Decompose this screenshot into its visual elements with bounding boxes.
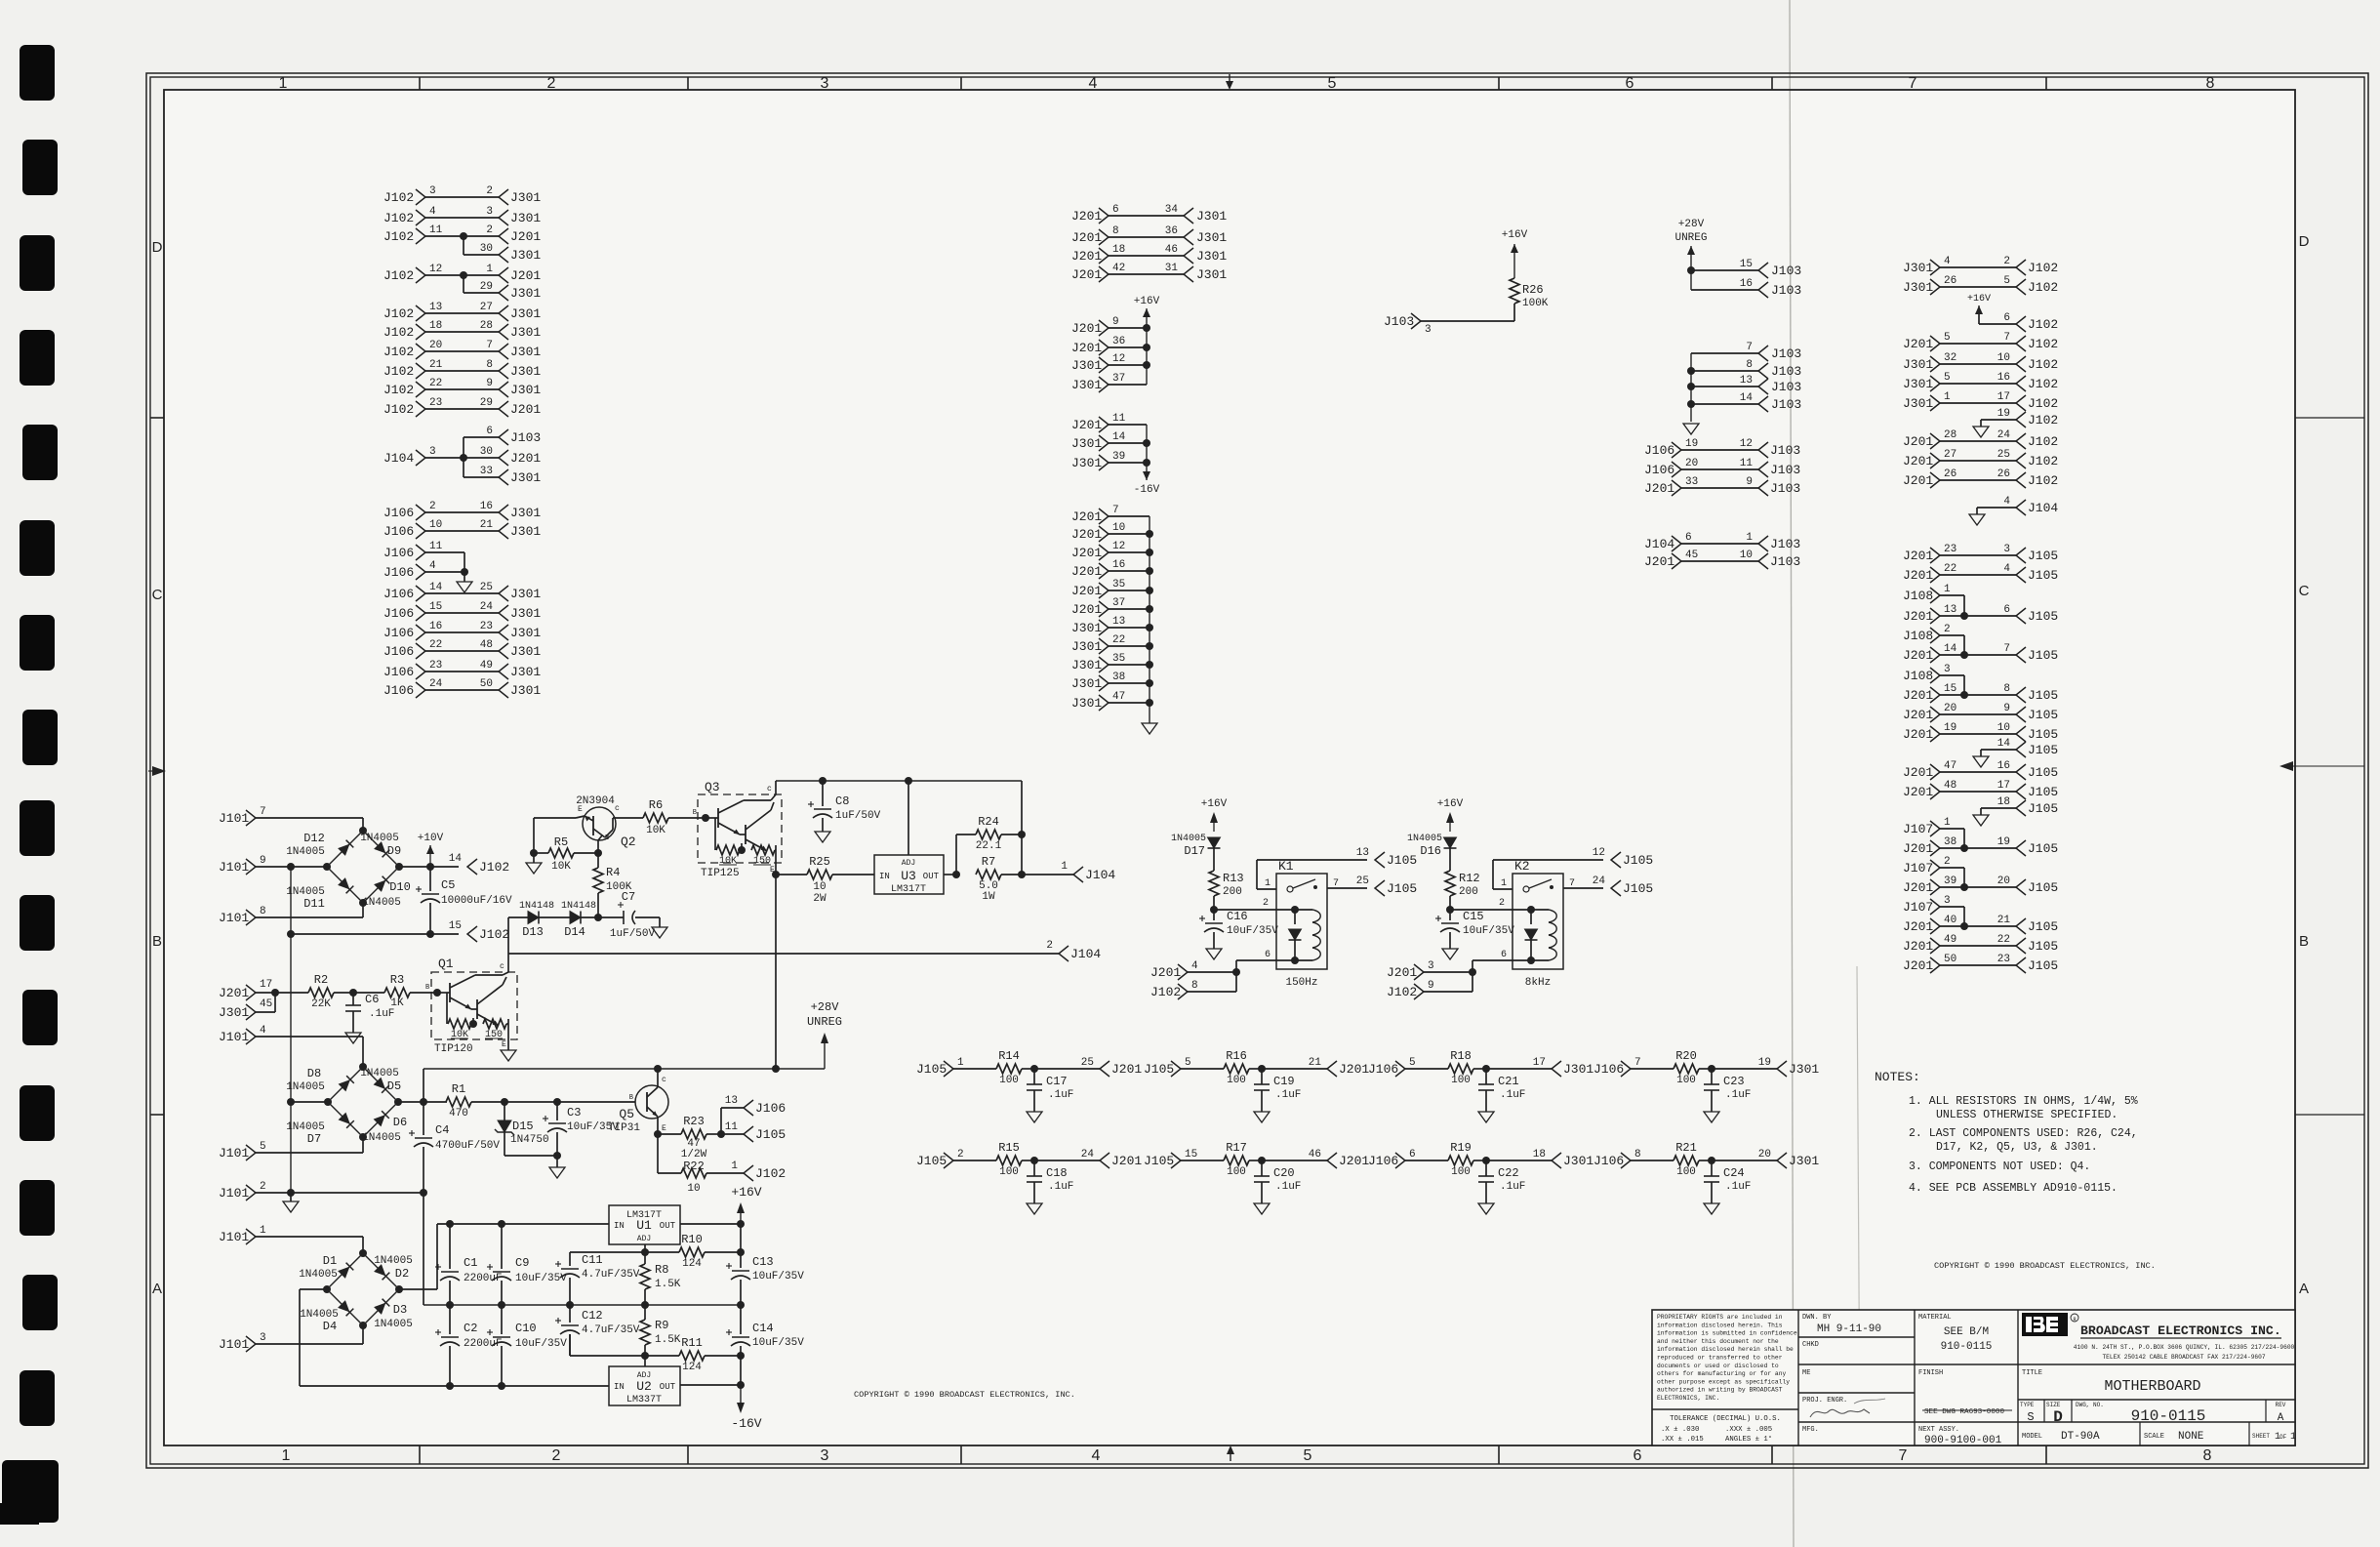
svg-text:c: c	[615, 804, 620, 813]
wire to J201.24	[1034, 1160, 1100, 1161]
wire Q2 base	[594, 849, 602, 857]
svg-text:1: 1	[260, 1225, 266, 1237]
resistor R26	[1510, 278, 1519, 304]
svg-text:18: 18	[429, 320, 442, 332]
svg-text:J301: J301	[510, 345, 541, 359]
svg-text:C13: C13	[752, 1255, 774, 1269]
svg-text:J106: J106	[383, 565, 414, 580]
resistor R18	[1405, 1068, 1448, 1070]
ground C24	[1704, 1203, 1719, 1214]
svg-text:TYPE: TYPE	[2020, 1402, 2035, 1408]
svg-text:R9: R9	[655, 1319, 668, 1332]
svg-text:B: B	[693, 809, 697, 817]
svg-text:5: 5	[1409, 1057, 1416, 1069]
svg-text:25: 25	[480, 582, 493, 593]
resistor R21	[1631, 1160, 1674, 1161]
svg-text:1uF/50V: 1uF/50V	[610, 928, 656, 940]
svg-text:11: 11	[429, 541, 443, 552]
svg-text:information disclosed herein.: information disclosed herein. This	[1657, 1322, 1783, 1328]
svg-text:+10V: +10V	[418, 833, 444, 844]
resistor R15	[953, 1160, 996, 1161]
svg-text:10uF/35V: 10uF/35V	[1227, 925, 1278, 937]
svg-text:J301: J301	[1071, 696, 1102, 711]
svg-text:J106: J106	[755, 1101, 786, 1116]
svg-text:J103: J103	[1771, 364, 1801, 379]
node J201.15 junction	[1960, 691, 1968, 699]
svg-text:4: 4	[2003, 563, 2010, 575]
wire J201.4 row	[1188, 971, 1236, 973]
svg-text:NONE: NONE	[2178, 1431, 2204, 1443]
svg-text:J201: J201	[1071, 249, 1102, 264]
ground C8	[815, 832, 830, 842]
svg-text:2. LAST COMPONENTS USED: R26: 2. LAST COMPONENTS USED: R26, C24,	[1909, 1127, 2138, 1140]
svg-text:J105: J105	[2028, 648, 2058, 663]
wire C15 node to relay pin2	[1450, 909, 1513, 911]
svg-text:29: 29	[480, 397, 493, 409]
svg-text:26: 26	[1997, 468, 2010, 480]
svg-text:J301: J301	[510, 325, 541, 340]
svg-text:40: 40	[1944, 915, 1956, 926]
svg-text:18: 18	[1997, 796, 2010, 808]
svg-text:R21: R21	[1675, 1141, 1697, 1155]
svg-text:6: 6	[486, 426, 493, 437]
svg-text:J301: J301	[510, 190, 541, 205]
svg-text:C24: C24	[1723, 1166, 1745, 1180]
svg-text:D11: D11	[303, 897, 325, 911]
svg-text:J201: J201	[1071, 209, 1102, 224]
capacitor C5	[429, 867, 431, 891]
svg-text:J201: J201	[1903, 785, 1933, 799]
wire U1 OUT	[680, 1223, 741, 1225]
svg-text:23: 23	[429, 660, 442, 672]
svg-text:PROPRIETARY RIGHTS are include: PROPRIETARY RIGHTS are included in	[1657, 1314, 1783, 1321]
svg-text:1. ALL RESISTORS IN OHMS, 1/: 1. ALL RESISTORS IN OHMS, 1/4W, 5%	[1909, 1095, 2138, 1108]
resistor R1	[446, 1097, 471, 1107]
svg-text:J103: J103	[1770, 443, 1800, 458]
svg-text:J105: J105	[2028, 801, 2058, 816]
svg-text:J301: J301	[510, 470, 541, 485]
svg-text:J106: J106	[383, 587, 414, 601]
wire U3 OUT	[944, 874, 956, 875]
svg-text:2: 2	[1944, 856, 1951, 868]
svg-text:J105: J105	[2028, 549, 2058, 563]
svg-text:5: 5	[1328, 75, 1337, 92]
svg-text:D1: D1	[323, 1254, 337, 1268]
svg-text:C: C	[152, 587, 163, 603]
svg-text:J104: J104	[2028, 501, 2058, 515]
svg-text:J201: J201	[1903, 609, 1933, 624]
svg-text:24: 24	[1997, 429, 2011, 441]
top center fold arrow	[1229, 74, 1230, 87]
svg-text:8: 8	[1191, 980, 1198, 992]
svg-text:J101: J101	[219, 1186, 249, 1201]
svg-text:1N4750: 1N4750	[510, 1134, 549, 1146]
row R10	[570, 1251, 679, 1253]
svg-text:J301: J301	[1071, 658, 1102, 672]
capacitor C14	[740, 1305, 742, 1334]
svg-text:R2: R2	[314, 973, 328, 987]
node Q3 base	[702, 814, 709, 822]
capacitor C1	[446, 1220, 454, 1228]
svg-text:J106: J106	[383, 506, 414, 520]
svg-text:19: 19	[1758, 1057, 1771, 1069]
svg-text:1N4005: 1N4005	[374, 1255, 413, 1267]
wire J101.1 to bridge3 top	[256, 1236, 363, 1238]
svg-text:17: 17	[1997, 391, 2010, 403]
power -16V center bus	[1146, 425, 1148, 474]
capacitor C22	[1485, 1160, 1487, 1176]
svg-text:R25: R25	[809, 855, 830, 869]
svg-text:J201: J201	[1339, 1154, 1369, 1168]
svg-text:13: 13	[429, 302, 442, 313]
svg-text:8: 8	[1746, 359, 1753, 371]
wire J102.15 row	[287, 930, 295, 938]
svg-text:J105: J105	[2028, 727, 2058, 742]
svg-text:BROADCAST ELECTRONICS INC.: BROADCAST ELECTRONICS INC.	[2080, 1323, 2281, 1338]
wire to J103.7	[1691, 352, 1758, 354]
svg-text:2W: 2W	[813, 893, 827, 905]
svg-text:2: 2	[1944, 624, 1951, 635]
svg-text:-16V: -16V	[731, 1416, 761, 1431]
resistor R10	[679, 1247, 705, 1257]
svg-text:B: B	[2299, 933, 2309, 950]
svg-text:D: D	[152, 239, 163, 256]
node J201.40 junction	[1960, 922, 1968, 930]
svg-text:100: 100	[1451, 1075, 1471, 1086]
svg-text:SCALE: SCALE	[2144, 1433, 2164, 1441]
zone row ticks right	[2295, 417, 2364, 419]
wire C7 to ground	[635, 916, 660, 918]
svg-text:J103: J103	[1771, 346, 1801, 361]
resistor R6	[643, 813, 668, 823]
svg-text:R18: R18	[1450, 1049, 1472, 1063]
svg-text:1N4005: 1N4005	[374, 1319, 413, 1330]
svg-text:J201: J201	[1071, 509, 1102, 524]
svg-text:20: 20	[1997, 875, 2010, 887]
zone row ticks left	[150, 417, 164, 419]
relay K2 box	[1513, 874, 1563, 969]
svg-text:J201: J201	[1071, 564, 1102, 579]
wire J101.3 to bridge3 bottom	[256, 1343, 363, 1345]
svg-text:1K: 1K	[390, 997, 404, 1009]
svg-text:J201: J201	[1339, 1062, 1369, 1077]
svg-text:100: 100	[1227, 1166, 1246, 1178]
svg-text:36: 36	[1112, 336, 1125, 347]
svg-text:MH 9-11-90: MH 9-11-90	[1817, 1323, 1881, 1335]
ground C21	[1478, 1112, 1494, 1122]
svg-text:Q3: Q3	[705, 780, 720, 794]
svg-text:3: 3	[1944, 664, 1951, 675]
ground symbol J105.18	[1980, 808, 1982, 815]
svg-text:21: 21	[429, 359, 443, 371]
svg-text:14: 14	[1944, 643, 1957, 655]
wire branch J301.33	[464, 476, 499, 478]
svg-text:6: 6	[1409, 1149, 1416, 1160]
svg-text:100: 100	[1227, 1075, 1246, 1086]
svg-text:16: 16	[480, 501, 493, 512]
svg-text:J201: J201	[1644, 554, 1674, 569]
capacitor C2	[449, 1305, 451, 1334]
svg-text:18: 18	[1112, 244, 1125, 256]
svg-text:6: 6	[1634, 1447, 1642, 1464]
svg-text:100: 100	[1676, 1075, 1696, 1086]
svg-text:13: 13	[725, 1095, 738, 1107]
svg-text:5: 5	[1304, 1447, 1312, 1464]
svg-text:J108: J108	[1903, 589, 1933, 603]
svg-text:7: 7	[486, 340, 493, 351]
svg-text:200: 200	[1223, 886, 1242, 898]
svg-text:J102: J102	[2028, 357, 2058, 372]
node C15	[1446, 906, 1454, 914]
svg-text:23: 23	[429, 397, 442, 409]
capacitor C3	[553, 1098, 561, 1106]
svg-text:39: 39	[1112, 451, 1125, 463]
svg-text:9: 9	[486, 378, 493, 389]
svg-text:1: 1	[1944, 391, 1951, 403]
svg-text:47: 47	[1944, 760, 1956, 772]
svg-text:D2: D2	[395, 1267, 409, 1281]
svg-text:1: 1	[1501, 878, 1507, 889]
svg-text:J106: J106	[1644, 443, 1674, 458]
svg-text:R3: R3	[390, 973, 404, 987]
svg-text:J105: J105	[2028, 609, 2058, 624]
svg-text:OUT: OUT	[660, 1382, 676, 1392]
capacitor C13	[740, 1224, 742, 1252]
ground left bus	[290, 1193, 292, 1201]
svg-text:48: 48	[480, 639, 493, 651]
svg-text:J105: J105	[2028, 919, 2058, 934]
svg-text:C16: C16	[1227, 910, 1248, 923]
svg-text:12: 12	[1593, 847, 1605, 859]
wire J201.3 row	[1424, 971, 1472, 973]
svg-text:J102: J102	[383, 345, 414, 359]
svg-text:100K: 100K	[1522, 298, 1549, 309]
svg-text:49: 49	[480, 660, 493, 672]
svg-text:7: 7	[1909, 75, 1917, 92]
svg-text:J103: J103	[1771, 380, 1801, 394]
wire Q5 collector	[657, 1069, 659, 1087]
svg-text:J201: J201	[1903, 337, 1933, 351]
svg-text:LM317T: LM317T	[891, 884, 926, 895]
svg-text:D17, K2, Q5, U3, & J301.: D17, K2, Q5, U3, & J301.	[1936, 1141, 2098, 1154]
svg-text:31: 31	[1165, 263, 1179, 274]
svg-text:information disclosed herein s: information disclosed herein shall be	[1657, 1346, 1794, 1353]
capacitor C15	[1449, 910, 1451, 920]
svg-text:1: 1	[1061, 861, 1068, 873]
svg-text:J201: J201	[510, 229, 541, 244]
svg-text:22: 22	[1944, 563, 1956, 575]
svg-text:SIZE: SIZE	[2046, 1402, 2061, 1408]
svg-text:R23: R23	[683, 1115, 705, 1128]
wire branch J301.29	[463, 275, 464, 293]
svg-text:J301: J301	[510, 306, 541, 321]
svg-text:9: 9	[260, 855, 266, 867]
svg-text:J102: J102	[383, 306, 414, 321]
svg-text:U3: U3	[901, 869, 916, 883]
svg-text:16: 16	[429, 621, 442, 632]
zone column ticks bottom	[419, 1445, 421, 1464]
svg-text:ELECTRONICS, INC.: ELECTRONICS, INC.	[1657, 1395, 1719, 1402]
svg-text:D15: D15	[512, 1120, 534, 1133]
svg-text:J201: J201	[1903, 765, 1933, 780]
ground symbol J104.4	[1976, 508, 1978, 514]
diode D17 1N4005	[1208, 837, 1221, 848]
ground to J105.14	[1981, 749, 2016, 751]
svg-text:J201: J201	[1071, 321, 1102, 336]
svg-text:1N4005: 1N4005	[286, 1081, 325, 1093]
svg-text:17: 17	[260, 979, 272, 991]
svg-text:J105: J105	[2028, 568, 2058, 583]
svg-text:DWN. BY: DWN. BY	[1802, 1314, 1832, 1322]
svg-text:36: 36	[1165, 225, 1178, 237]
svg-text:R6: R6	[649, 798, 663, 812]
ground C22	[1478, 1203, 1494, 1214]
svg-text:24: 24	[1593, 875, 1606, 887]
capacitor C8	[819, 777, 827, 785]
svg-text:1: 1	[279, 75, 288, 92]
svg-text:16: 16	[1112, 559, 1125, 571]
svg-text:A: A	[152, 1281, 162, 1297]
wire Q3 collector to +rail	[775, 781, 777, 794]
svg-text:3. COMPONENTS NOT USED: Q4.: 3. COMPONENTS NOT USED: Q4.	[1909, 1160, 2090, 1173]
svg-text:information is submitted in co: information is submitted in confidence	[1657, 1330, 1797, 1337]
svg-text:4: 4	[1092, 1447, 1101, 1464]
capacitor C16	[1213, 910, 1215, 920]
wire to J102.1	[744, 1165, 753, 1181]
svg-text:15: 15	[1944, 683, 1956, 695]
svg-text:C17: C17	[1046, 1075, 1068, 1088]
svg-text:J105: J105	[1144, 1062, 1174, 1077]
svg-text:J102: J102	[1387, 985, 1417, 999]
resistor R13	[1209, 871, 1219, 896]
svg-text:38: 38	[1944, 836, 1956, 848]
ground symbol J105.14	[1980, 750, 1982, 756]
svg-text:17: 17	[1533, 1057, 1546, 1069]
svg-text:Q2: Q2	[621, 835, 636, 849]
svg-text:.1uF: .1uF	[1048, 1089, 1073, 1101]
svg-text:IN: IN	[614, 1221, 625, 1231]
wire Q5 emitter	[657, 1117, 659, 1134]
svg-text:J103: J103	[1770, 463, 1800, 477]
svg-text:1N4005: 1N4005	[1407, 834, 1442, 844]
svg-text:29: 29	[480, 281, 493, 293]
svg-text:10: 10	[813, 881, 826, 893]
ground to J105.18	[1981, 807, 2016, 809]
svg-text:3: 3	[429, 185, 436, 197]
resistor R12	[1445, 871, 1455, 896]
svg-text:SEE DWG RA693-0000: SEE DWG RA693-0000	[1924, 1408, 2004, 1416]
svg-text:J106: J106	[383, 626, 414, 640]
ground C23	[1704, 1112, 1719, 1122]
svg-text:20: 20	[1758, 1149, 1771, 1160]
svg-text:5: 5	[2003, 275, 2010, 287]
svg-text:J106: J106	[1368, 1062, 1398, 1077]
svg-text:50: 50	[1944, 954, 1956, 965]
svg-text:13: 13	[1740, 375, 1753, 387]
svg-text:J301: J301	[1903, 357, 1933, 372]
svg-text:C4: C4	[435, 1123, 449, 1137]
wire bridge1 to C5 node	[399, 866, 430, 868]
svg-text:E: E	[662, 1124, 666, 1133]
wire relay K2 pin7 to J105.24	[1563, 887, 1603, 889]
svg-text:12: 12	[429, 264, 442, 275]
svg-text:100: 100	[999, 1075, 1019, 1086]
svg-text:1: 1	[1944, 584, 1951, 595]
svg-text:J301: J301	[219, 1005, 249, 1020]
svg-text:J102: J102	[383, 211, 414, 225]
svg-text:J301: J301	[510, 211, 541, 225]
svg-text:1: 1	[2290, 1432, 2296, 1443]
svg-text:R5: R5	[554, 835, 568, 849]
svg-text:J201: J201	[219, 986, 249, 1000]
svg-text:others for manufacturing or fo: others for manufacturing or for any	[1657, 1370, 1786, 1377]
svg-text:C19: C19	[1273, 1075, 1295, 1088]
svg-text:7: 7	[2003, 643, 2010, 655]
svg-text:14: 14	[449, 853, 463, 865]
svg-text:J106: J106	[383, 524, 414, 539]
node C16	[1210, 906, 1218, 914]
svg-text:J102: J102	[2028, 434, 2058, 449]
svg-text:10: 10	[429, 519, 442, 531]
svg-text:2: 2	[260, 1181, 266, 1193]
ground C17	[1027, 1112, 1042, 1122]
svg-text:J102: J102	[2028, 396, 2058, 411]
svg-text:J101: J101	[219, 911, 249, 925]
svg-text:R24: R24	[978, 815, 999, 829]
svg-text:+28V: +28V	[811, 1000, 840, 1014]
svg-text:4: 4	[1089, 75, 1098, 92]
relay K2 clamp diode	[1530, 910, 1532, 924]
svg-text:J105: J105	[1387, 853, 1417, 868]
svg-text:c: c	[662, 1076, 666, 1084]
svg-text:1: 1	[1265, 878, 1271, 889]
svg-text:9: 9	[1428, 980, 1434, 992]
svg-text:1: 1	[486, 264, 493, 275]
power +28V UNREG rail	[424, 1068, 825, 1070]
svg-text:J201: J201	[1903, 880, 1933, 895]
ground J103 group	[1683, 424, 1699, 434]
svg-text:2: 2	[486, 185, 493, 197]
ground C7	[652, 927, 667, 938]
svg-text:J103: J103	[1770, 537, 1800, 551]
svg-text:10K: 10K	[646, 825, 666, 836]
svg-text:38: 38	[1112, 672, 1125, 683]
svg-text:J101: J101	[219, 860, 249, 875]
svg-text:.1uF: .1uF	[1048, 1181, 1073, 1193]
svg-text:J103: J103	[1771, 397, 1801, 412]
regulator U1 LM317T	[609, 1205, 680, 1244]
svg-text:3: 3	[1428, 960, 1434, 972]
svg-text:23: 23	[480, 621, 493, 632]
svg-text:21: 21	[1309, 1057, 1322, 1069]
svg-text:45: 45	[260, 998, 272, 1010]
node J201.13 junction	[1960, 612, 1968, 620]
relay K1 contact	[1287, 886, 1293, 892]
svg-text:24: 24	[429, 678, 443, 690]
svg-text:J201: J201	[1903, 958, 1933, 973]
svg-text:12: 12	[1112, 353, 1125, 365]
svg-text:J301: J301	[510, 644, 541, 659]
wire center tap to mid rail	[423, 1193, 424, 1305]
relay K1 box	[1276, 874, 1327, 969]
svg-text:J103: J103	[1771, 264, 1801, 278]
svg-text:23: 23	[1944, 544, 1956, 555]
svg-text:10uF/35V: 10uF/35V	[515, 1338, 567, 1350]
svg-text:J201: J201	[510, 402, 541, 417]
svg-text:9: 9	[2003, 703, 2010, 714]
svg-text:49: 49	[1944, 934, 1956, 946]
svg-text:124: 124	[682, 1258, 702, 1270]
